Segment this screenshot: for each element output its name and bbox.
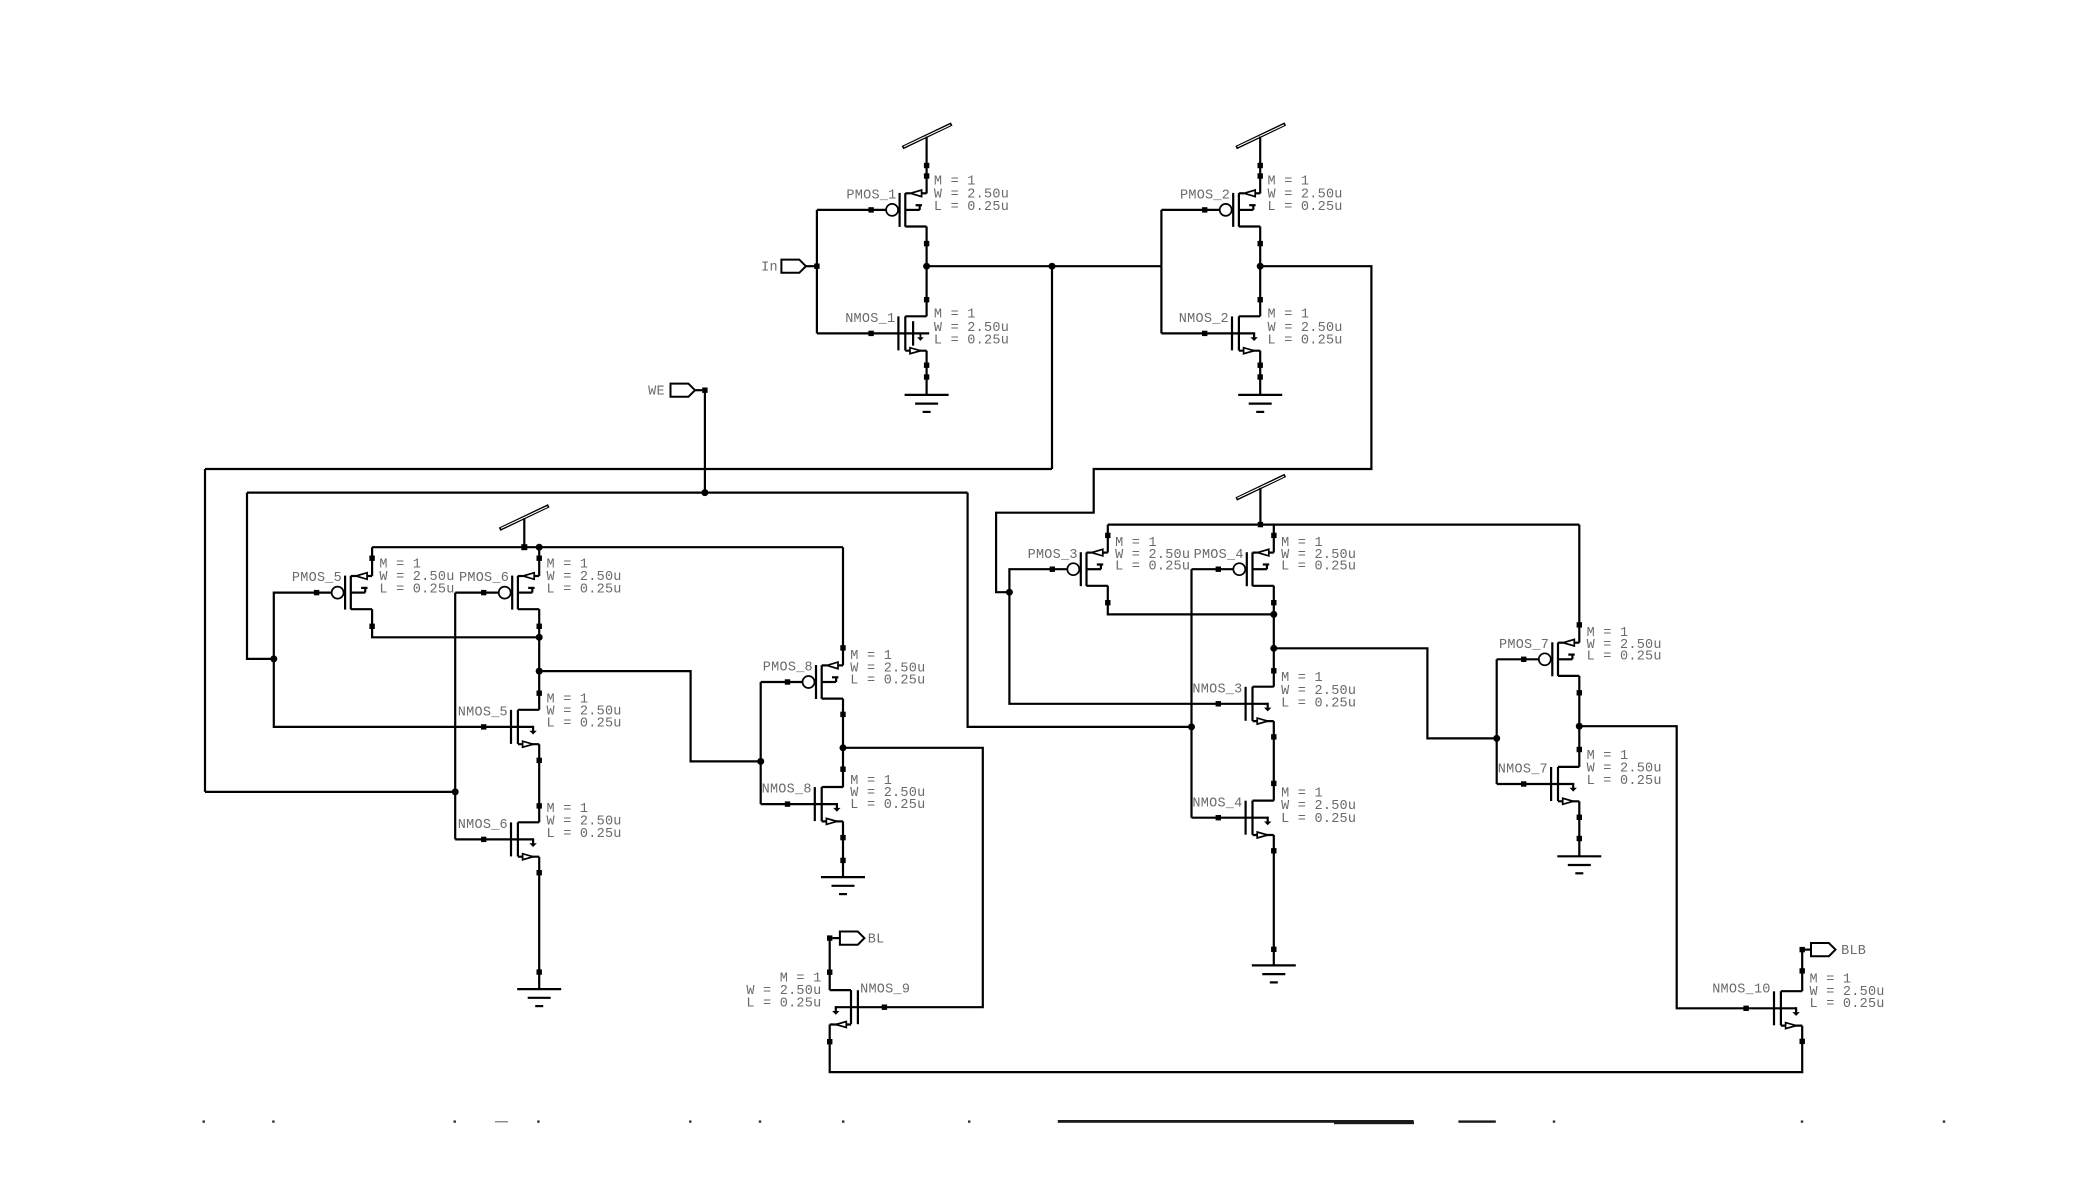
svg-text:L = 0.25u: L = 0.25u bbox=[379, 583, 454, 598]
pin square NMOS_1 gate bbox=[868, 331, 873, 336]
pin square NMOS_7 gate bbox=[1521, 781, 1526, 786]
port In bbox=[781, 260, 814, 273]
pin square NMOS_3 gate bbox=[1216, 701, 1221, 706]
wire PMOS_8 gate bbox=[761, 681, 803, 683]
label NMOS_2 bbox=[1179, 312, 1229, 327]
wire VDD_L stem bbox=[523, 518, 525, 547]
wire NMOS_9 source bbox=[830, 1025, 1802, 1073]
port WE bbox=[671, 384, 703, 397]
svg-text:PMOS_4: PMOS_4 bbox=[1194, 548, 1244, 563]
label PMOS_1 bbox=[846, 189, 896, 204]
port WE label bbox=[648, 385, 665, 400]
pin square NMOS_5 source bbox=[537, 758, 542, 763]
label NMOS_10 params bbox=[1810, 973, 1885, 1012]
node PMOS_3 drain dot bbox=[1270, 611, 1277, 618]
wire PMOS_3 gate route bbox=[1009, 569, 1218, 704]
node out1 dot bbox=[452, 788, 459, 795]
wire PMOS_7 drain bbox=[1578, 676, 1580, 726]
node out2 dot bbox=[1006, 589, 1013, 596]
transistor PMOS_1 bbox=[886, 190, 927, 227]
label NMOS_7 params bbox=[1587, 749, 1662, 789]
wire NMOS_8 source bbox=[842, 821, 844, 877]
label NMOS_5 params bbox=[547, 693, 622, 732]
svg-text:L = 0.25u: L = 0.25u bbox=[1587, 774, 1662, 789]
transistor PMOS_8 bbox=[803, 662, 844, 699]
pin square NMOS_1 drain bbox=[924, 297, 929, 302]
pin square NMOS_10 drain bbox=[1800, 968, 1805, 973]
wire NAND_R out bbox=[1274, 648, 1497, 738]
ground NMOS_7 bbox=[1557, 856, 1601, 873]
label PMOS_5 bbox=[292, 571, 342, 586]
transistor NMOS_1 bbox=[871, 316, 929, 353]
svg-text:NMOS_5: NMOS_5 bbox=[458, 706, 508, 721]
wire WE vertical bbox=[704, 390, 706, 492]
svg-text:L = 0.25u: L = 0.25u bbox=[850, 798, 925, 813]
wire PMOS_6 gate bbox=[455, 591, 499, 593]
label NMOS_3 bbox=[1192, 682, 1242, 697]
pin square PMOS_3 source bbox=[1105, 533, 1110, 538]
wire PMOS_4 NMOS_4 gate vertical bbox=[1190, 569, 1192, 818]
node WE right dot bbox=[1188, 723, 1195, 730]
svg-text:L = 0.25u: L = 0.25u bbox=[934, 200, 1009, 215]
pin square NMOS_4 gate bbox=[1216, 815, 1221, 820]
wire NMOS_4 gate bbox=[1192, 817, 1219, 819]
pin square NMOS_8 gate bbox=[785, 801, 790, 806]
wire PMOS_7 gate bbox=[1497, 658, 1539, 660]
pin squares NMOS_6 source bbox=[537, 870, 542, 975]
label PMOS_8 params bbox=[850, 649, 925, 688]
pin square PMOS_6 drain bbox=[537, 624, 542, 629]
wire BL driver out bbox=[843, 748, 983, 1007]
pin square NMOS_3 source bbox=[1271, 734, 1276, 739]
node WE dot bbox=[701, 489, 708, 496]
wire PMOS_7 source bbox=[1578, 525, 1580, 643]
label NMOS_10 bbox=[1712, 983, 1770, 998]
label PMOS_1 params bbox=[934, 174, 1009, 215]
wire NMOS_4 source bbox=[1273, 835, 1275, 965]
transistor NMOS_10 bbox=[1747, 991, 1803, 1028]
svg-text:NMOS_10: NMOS_10 bbox=[1712, 983, 1770, 998]
label NMOS_9 params bbox=[746, 972, 821, 1012]
svg-text:L = 0.25u: L = 0.25u bbox=[547, 583, 622, 598]
label PMOS_3 bbox=[1028, 548, 1078, 563]
wire inverter1 output bbox=[927, 265, 1162, 267]
transistor NMOS_7 bbox=[1524, 767, 1580, 804]
pin square PMOS_5 gate bbox=[314, 590, 319, 595]
pin square PMOS_2 drain bbox=[1258, 241, 1263, 246]
wire WE right leg bbox=[968, 493, 1192, 727]
svg-text:In: In bbox=[761, 261, 778, 276]
wire inv2 gate vertical bbox=[1160, 210, 1162, 334]
wire NMOS_1 gate bbox=[817, 332, 871, 334]
label NMOS_3 params bbox=[1281, 671, 1356, 712]
node NAND_L out dot bbox=[536, 668, 543, 675]
wire BL down bbox=[829, 938, 831, 990]
port BL bbox=[833, 932, 865, 945]
svg-text:NMOS_7: NMOS_7 bbox=[1498, 763, 1548, 778]
wire WE left leg bbox=[247, 493, 274, 659]
label NMOS_6 params bbox=[547, 802, 622, 842]
pin squares NMOS_8 source bbox=[840, 835, 845, 863]
node tri-L gate dot bbox=[757, 758, 764, 765]
wire NMOS_7 gate bbox=[1497, 783, 1524, 785]
label NMOS_7 bbox=[1498, 763, 1548, 778]
svg-text:L = 0.25u: L = 0.25u bbox=[850, 674, 925, 689]
node WE left dot bbox=[270, 655, 277, 662]
ground NMOS_2 bbox=[1238, 395, 1282, 412]
wire NAND_L out bbox=[539, 671, 761, 761]
wire PMOS_2 gate bbox=[1161, 209, 1219, 211]
svg-text:BL: BL bbox=[868, 932, 885, 947]
pin square NMOS_5 gate bbox=[481, 724, 486, 729]
pin square WE bbox=[702, 388, 707, 393]
wire NMOS_1 drain bbox=[925, 266, 927, 316]
pin squares NMOS_1 source bbox=[924, 363, 929, 380]
pin squares NMOS_4 source bbox=[1271, 848, 1276, 952]
node VDD_L square bbox=[521, 544, 542, 551]
pin square NMOS_7 drain bbox=[1577, 747, 1582, 752]
wire tri-L gate vertical bbox=[760, 682, 762, 804]
wire PMOS_4 source bbox=[1273, 525, 1275, 553]
wire VDD_R rail bbox=[1108, 523, 1580, 525]
pin square BL bbox=[827, 935, 832, 940]
wire NMOS_7 drain bbox=[1578, 726, 1580, 767]
wire NMOS_6 gate bbox=[455, 838, 484, 840]
node NAND_R out dot bbox=[1270, 645, 1277, 652]
label NMOS_8 bbox=[762, 783, 812, 798]
svg-text:NMOS_1: NMOS_1 bbox=[845, 312, 895, 327]
label PMOS_3 params bbox=[1115, 536, 1190, 574]
pin square NMOS_2 gate bbox=[1202, 331, 1207, 336]
wire NAND_L mid vertical bbox=[538, 609, 540, 710]
wire out2 route bbox=[996, 266, 1371, 592]
node BL driver dot bbox=[840, 744, 847, 751]
svg-text:L = 0.25u: L = 0.25u bbox=[1587, 649, 1662, 664]
wire PMOS_4 gate route bbox=[1192, 568, 1234, 570]
pin square NMOS_8 drain bbox=[840, 767, 845, 772]
wire PMOS_6 source bbox=[538, 547, 540, 576]
svg-text:L = 0.25u: L = 0.25u bbox=[547, 717, 622, 732]
pin square NMOS_5 drain bbox=[537, 691, 542, 696]
pin square PMOS_1 gate bbox=[868, 207, 873, 212]
pin square PMOS_4 gate bbox=[1216, 567, 1221, 572]
svg-text:NMOS_6: NMOS_6 bbox=[458, 818, 508, 833]
wire NMOS_6 source bbox=[538, 857, 540, 989]
port In label bbox=[761, 261, 778, 276]
label NMOS_4 params bbox=[1281, 786, 1356, 827]
svg-text:PMOS_1: PMOS_1 bbox=[846, 189, 896, 204]
pin square PMOS_5 drain bbox=[369, 624, 374, 629]
transistor NMOS_8 bbox=[788, 787, 844, 824]
svg-text:PMOS_6: PMOS_6 bbox=[459, 571, 509, 586]
label NMOS_9 bbox=[860, 983, 910, 998]
label PMOS_6 bbox=[459, 571, 509, 586]
wire PMOS_2 drain bbox=[1259, 227, 1261, 267]
label PMOS_4 params bbox=[1281, 536, 1356, 574]
wire PMOS_6 NMOS_6 gate vertical bbox=[454, 593, 456, 840]
svg-text:L = 0.25u: L = 0.25u bbox=[547, 827, 622, 842]
label PMOS_2 bbox=[1180, 189, 1230, 204]
svg-text:L = 0.25u: L = 0.25u bbox=[1268, 333, 1343, 348]
pin square PMOS_5 source bbox=[369, 556, 374, 561]
node In junction square bbox=[814, 264, 819, 269]
node inv2 out dot bbox=[1257, 263, 1264, 270]
pin square NMOS_6 gate bbox=[481, 837, 486, 842]
pin square PMOS_4 drain bbox=[1271, 600, 1276, 605]
wire out1 bottom bbox=[205, 791, 455, 793]
label PMOS_7 bbox=[1499, 638, 1549, 653]
wire In gate vertical bbox=[816, 210, 818, 334]
ground NMOS_4 bbox=[1252, 965, 1296, 982]
svg-text:NMOS_8: NMOS_8 bbox=[762, 783, 812, 798]
svg-text:L = 0.25u: L = 0.25u bbox=[1281, 697, 1356, 712]
node BLB driver dot bbox=[1576, 723, 1583, 730]
label NMOS_1 bbox=[845, 312, 895, 327]
svg-text:L = 0.25u: L = 0.25u bbox=[1281, 812, 1356, 827]
pin square VDD_R bbox=[1258, 522, 1263, 527]
pin square PMOS_4 source bbox=[1271, 533, 1276, 538]
node PMOS_5 drain dot bbox=[536, 634, 543, 641]
wire PMOS_8 source bbox=[842, 547, 844, 665]
label PMOS_8 bbox=[763, 661, 813, 676]
svg-text:L = 0.25u: L = 0.25u bbox=[934, 333, 1009, 348]
pin square PMOS_3 drain bbox=[1105, 600, 1110, 605]
transistor PMOS_4 bbox=[1233, 549, 1274, 586]
pin square PMOS_8 drain bbox=[840, 712, 845, 717]
wire NMOS_2 source bbox=[1259, 351, 1261, 395]
svg-text:L = 0.25u: L = 0.25u bbox=[1281, 559, 1356, 574]
svg-text:NMOS_4: NMOS_4 bbox=[1192, 796, 1242, 811]
ground NMOS_1 bbox=[905, 395, 949, 412]
svg-text:NMOS_3: NMOS_3 bbox=[1192, 682, 1242, 697]
wire NAND_R mid vertical bbox=[1273, 586, 1275, 687]
wire WE to NMOS_5 gate bbox=[274, 659, 484, 727]
pin square NMOS_9 source bbox=[827, 1039, 832, 1044]
svg-text:BLB: BLB bbox=[1841, 944, 1866, 959]
label PMOS_7 params bbox=[1587, 626, 1662, 664]
pin squares VDD1 wire bbox=[924, 163, 929, 179]
vdd supply VDD2 bbox=[1236, 124, 1285, 148]
transistor PMOS_2 bbox=[1220, 190, 1261, 227]
ground NMOS_6 bbox=[517, 989, 561, 1006]
wire NMOS_7 source bbox=[1578, 801, 1580, 856]
svg-text:L = 0.25u: L = 0.25u bbox=[1810, 997, 1885, 1012]
transistor PMOS_7 bbox=[1539, 639, 1580, 676]
wire NMOS_8 gate bbox=[761, 803, 788, 805]
ground NMOS_8 bbox=[821, 877, 865, 894]
label NMOS_4 bbox=[1192, 796, 1242, 811]
label NMOS_5 bbox=[458, 706, 508, 721]
wire NMOS_5 source to NMOS_6 drain bbox=[538, 744, 540, 822]
wire NMOS_2 gate bbox=[1161, 332, 1204, 334]
bottom clipped dash 2 bbox=[1458, 1120, 1495, 1122]
pin square NMOS_9 drain bbox=[827, 970, 832, 975]
vdd supply VDD_L bbox=[500, 506, 549, 530]
pin square NMOS_10 gate bbox=[1743, 1006, 1748, 1011]
wire WE to PMOS_5 gate bbox=[274, 593, 332, 659]
svg-text:PMOS_2: PMOS_2 bbox=[1180, 189, 1230, 204]
wire VDD2 to PMOS_2 source bbox=[1259, 137, 1261, 194]
pin square NMOS_4 drain bbox=[1271, 781, 1276, 786]
wire NMOS_8 drain bbox=[842, 748, 844, 788]
transistor PMOS_6 bbox=[499, 573, 540, 610]
transistor NMOS_9 bbox=[830, 990, 886, 1027]
label PMOS_2 params bbox=[1268, 174, 1343, 215]
vdd supply VDD_R bbox=[1236, 475, 1285, 499]
wire NMOS_1 source bbox=[925, 351, 927, 395]
label NMOS_2 params bbox=[1268, 308, 1343, 349]
svg-text:L = 0.25u: L = 0.25u bbox=[746, 997, 821, 1012]
svg-text:WE: WE bbox=[648, 385, 665, 400]
pin square PMOS_7 drain bbox=[1577, 690, 1582, 695]
bottom clipped line bbox=[1058, 1120, 1414, 1124]
label NMOS_6 bbox=[458, 818, 508, 833]
bottom clipped dash 1 bbox=[495, 1121, 508, 1122]
transistor NMOS_2 bbox=[1205, 316, 1261, 353]
label PMOS_4 bbox=[1194, 548, 1244, 563]
transistor NMOS_3 bbox=[1218, 687, 1274, 724]
pin square PMOS_6 source bbox=[537, 556, 542, 561]
svg-text:PMOS_8: PMOS_8 bbox=[763, 661, 813, 676]
label NMOS_8 params bbox=[850, 774, 925, 813]
pin square NMOS_9 gate bbox=[882, 1005, 887, 1010]
svg-text:L = 0.25u: L = 0.25u bbox=[1115, 559, 1190, 574]
label PMOS_5 params bbox=[379, 558, 454, 598]
pin square PMOS_8 source bbox=[840, 645, 845, 650]
pin square PMOS_7 gate bbox=[1521, 657, 1526, 662]
pin square PMOS_6 gate bbox=[481, 590, 486, 595]
wire VDD1 to PMOS_1 source bbox=[925, 137, 927, 194]
wire BLB driver out bbox=[1579, 726, 1746, 1008]
transistor NMOS_5 bbox=[484, 710, 540, 747]
wire WE horizontal bbox=[247, 492, 968, 494]
svg-text:PMOS_7: PMOS_7 bbox=[1499, 638, 1549, 653]
pin square PMOS_7 source bbox=[1577, 622, 1582, 627]
transistor PMOS_3 bbox=[1067, 549, 1108, 586]
wire PMOS_1 drain bbox=[925, 227, 927, 267]
node out1 branch dot bbox=[1049, 263, 1056, 270]
svg-text:NMOS_2: NMOS_2 bbox=[1179, 312, 1229, 327]
wire PMOS_8 drain bbox=[842, 699, 844, 748]
wire PMOS_3 drain bbox=[1108, 586, 1274, 615]
wire PMOS_1 gate bbox=[817, 209, 886, 211]
wire out1 down bbox=[1051, 266, 1053, 469]
port BL label bbox=[868, 932, 885, 947]
wire BLB down bbox=[1801, 950, 1803, 992]
pin square PMOS_3 gate bbox=[1050, 567, 1055, 572]
svg-text:L = 0.25u: L = 0.25u bbox=[1268, 200, 1343, 215]
pin squares NMOS_2 source bbox=[1258, 363, 1263, 380]
transistor NMOS_6 bbox=[484, 822, 540, 859]
pin square PMOS_1 drain bbox=[924, 241, 929, 246]
wire out1 across bbox=[205, 468, 1052, 470]
wire VDD_L rail bbox=[372, 546, 843, 548]
port BLB bbox=[1805, 943, 1836, 956]
port BLB label bbox=[1841, 944, 1866, 959]
wire NMOS_3 source to NMOS_4 drain bbox=[1273, 721, 1275, 801]
label PMOS_6 params bbox=[547, 558, 622, 598]
wire PMOS_5 source bbox=[371, 547, 373, 576]
transistor PMOS_5 bbox=[332, 573, 373, 610]
wire PMOS_5 drain bbox=[372, 609, 539, 637]
wire VDD_R stem bbox=[1259, 488, 1261, 525]
pin square NMOS_10 source bbox=[1800, 1039, 1805, 1044]
wire NMOS_2 drain bbox=[1259, 266, 1261, 316]
transistor NMOS_4 bbox=[1218, 801, 1274, 838]
bottom clipped tick dots bbox=[203, 1120, 1946, 1122]
svg-text:PMOS_3: PMOS_3 bbox=[1028, 548, 1078, 563]
pin square NMOS_6 drain bbox=[537, 803, 542, 808]
pin square NMOS_2 drain bbox=[1258, 297, 1263, 302]
svg-text:NMOS_9: NMOS_9 bbox=[860, 983, 910, 998]
wire tri-R gate vertical bbox=[1496, 659, 1498, 784]
pin square BLB bbox=[1800, 947, 1805, 952]
node inv1 out dot bbox=[923, 263, 930, 270]
pin square PMOS_8 gate bbox=[785, 679, 790, 684]
pin squares NMOS_7 source bbox=[1577, 815, 1582, 842]
pin squares VDD2 wire bbox=[1258, 163, 1263, 179]
wire out1 left down bbox=[204, 469, 206, 792]
label NMOS_1 params bbox=[934, 308, 1009, 349]
vdd supply VDD1 bbox=[903, 124, 952, 148]
pin square NMOS_3 drain bbox=[1271, 668, 1276, 673]
wire PMOS_3 source bbox=[1107, 525, 1109, 553]
node tri-R gate dot bbox=[1493, 735, 1500, 742]
svg-text:PMOS_5: PMOS_5 bbox=[292, 571, 342, 586]
pin square PMOS_2 gate bbox=[1202, 207, 1207, 212]
